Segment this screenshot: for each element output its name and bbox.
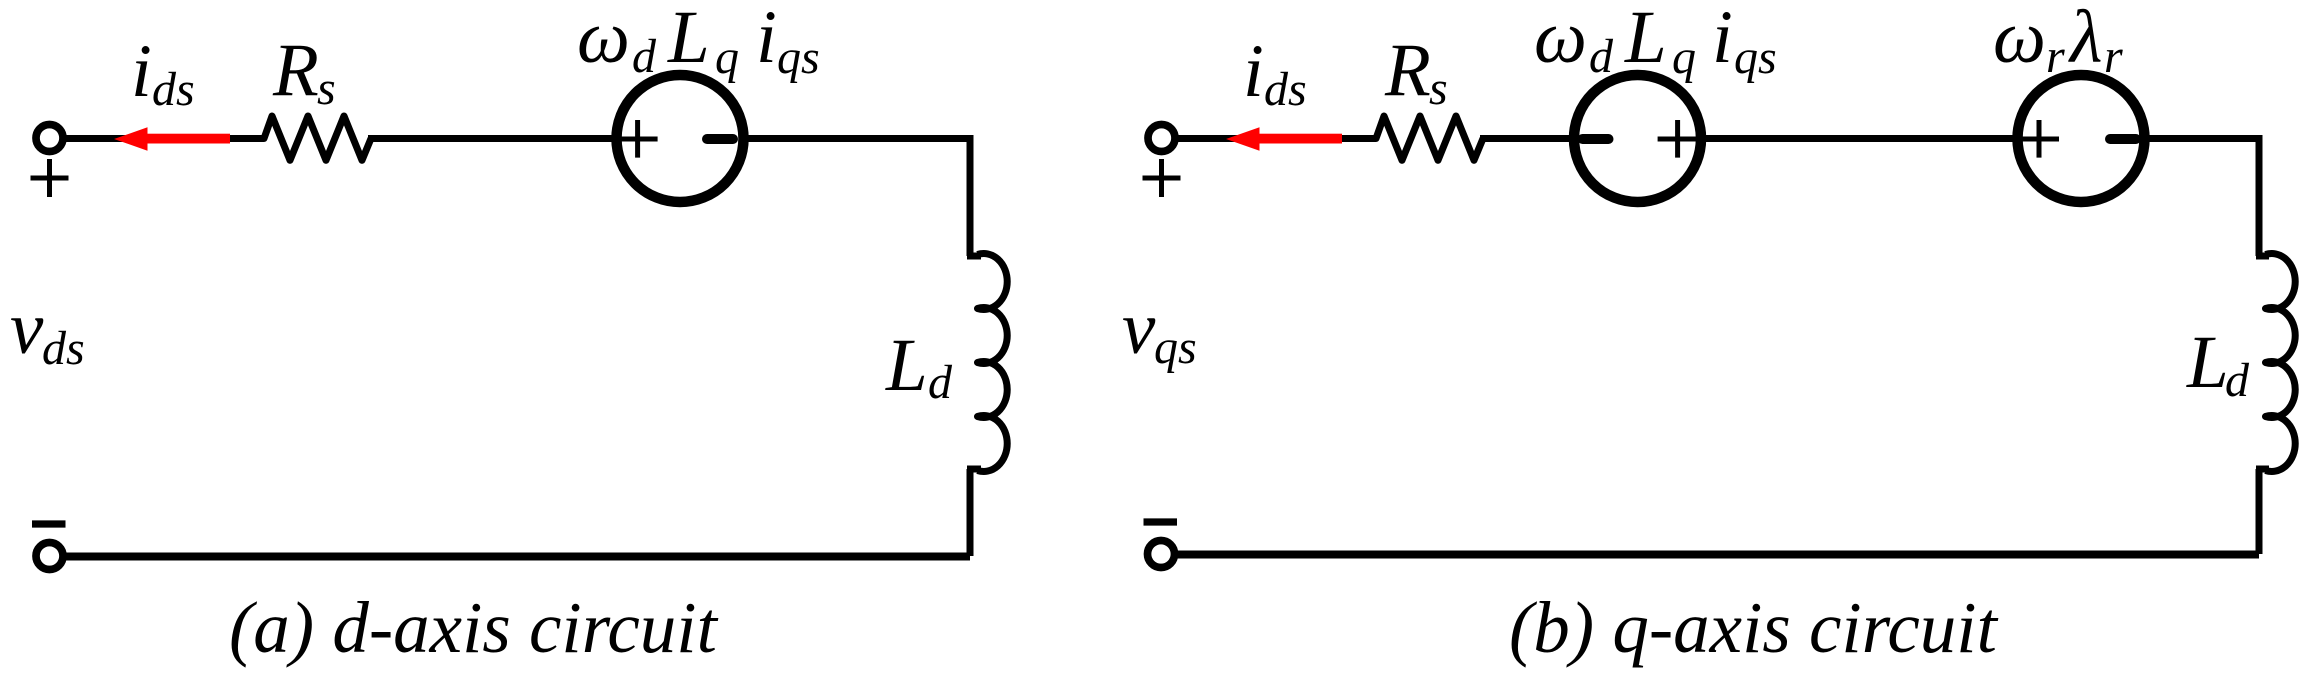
svg-text:i: i: [131, 30, 152, 113]
svg-text:d: d: [928, 356, 953, 409]
wire resistor-to-source1 (b): [1480, 135, 1576, 142]
svg-text:L: L: [1624, 0, 1667, 79]
label wd Lq iqs (b): [1534, 0, 1777, 84]
svg-text:r: r: [2104, 30, 2123, 83]
svg-text:i: i: [1243, 30, 1264, 113]
plus inside U1 (a): [618, 120, 658, 158]
svg-text:s: s: [1429, 62, 1448, 115]
svg-text:(a) d-axis circuit: (a) d-axis circuit: [229, 587, 719, 668]
label i_ds (b): [1243, 30, 1307, 116]
minus sign terminal (b): [1144, 518, 1178, 525]
svg-text:ds: ds: [42, 322, 85, 375]
wire elbow bottom (a): [967, 466, 981, 473]
terminal bottom-left (a): [36, 543, 63, 570]
svg-text:R: R: [272, 29, 319, 112]
minus sign terminal (a): [32, 520, 66, 527]
wire top-left segment (b): [1173, 135, 1376, 142]
current arrow i_ds (b): [1226, 127, 1342, 150]
svg-text:L: L: [667, 0, 710, 79]
wire bottom (a): [60, 553, 970, 561]
svg-text:i: i: [756, 0, 777, 79]
svg-text:d: d: [632, 30, 657, 83]
svg-text:v: v: [10, 287, 44, 370]
current arrow i_ds (a): [114, 127, 230, 150]
label v_qs (b): [1122, 287, 1197, 374]
wire elbow top (b): [2256, 253, 2269, 260]
wire resistor-to-source (a): [368, 135, 618, 142]
label i_ds (a): [131, 30, 195, 116]
inductor Ld (a): [978, 254, 1008, 472]
label v_ds (a): [10, 287, 85, 375]
wire right rail below inductor (b): [2256, 469, 2263, 554]
plus sign terminal (b): [1143, 159, 1181, 197]
svg-text:s: s: [317, 62, 336, 115]
wire source-to-corner and right rail top (a): [742, 139, 970, 257]
terminal bottom-left (b): [1148, 541, 1175, 568]
terminal top-left (a): [36, 125, 63, 152]
plus inside U3 (b): [2019, 120, 2059, 158]
svg-text:L: L: [2186, 321, 2229, 404]
plus sign terminal (a): [31, 159, 69, 197]
svg-text:q: q: [715, 31, 739, 84]
label wr lr (b): [1993, 0, 2123, 83]
svg-text:ω: ω: [1534, 0, 1587, 79]
wire elbow bottom (b): [2256, 466, 2269, 473]
svg-text:L: L: [885, 324, 928, 407]
minus inside U2 (b): [1583, 134, 1609, 144]
svg-text:qs: qs: [777, 31, 820, 84]
resistor Rs (a): [256, 116, 371, 160]
inductor Ld (b): [2266, 254, 2296, 472]
svg-text:qs: qs: [1154, 321, 1197, 374]
source U2 circle (b): [1574, 75, 1701, 202]
svg-text:d: d: [1589, 30, 1614, 83]
svg-text:q: q: [1672, 31, 1696, 84]
svg-text:qs: qs: [1734, 31, 1777, 84]
svg-text:R: R: [1384, 29, 1431, 112]
svg-text:v: v: [1122, 287, 1156, 370]
resistor Rs (b): [1368, 116, 1483, 160]
wire top-left segment (a): [60, 135, 264, 142]
svg-text:λ: λ: [2068, 0, 2102, 79]
plus inside U2 (b): [1658, 120, 1698, 158]
svg-text:ω: ω: [577, 0, 630, 79]
minus inside U3 (b): [2110, 134, 2136, 144]
svg-text:ds: ds: [1264, 63, 1307, 116]
wire right rail below inductor (a): [967, 469, 974, 556]
svg-text:i: i: [1712, 0, 1733, 79]
wire source2-to-corner and right rail top (b): [2146, 139, 2259, 257]
label Rs (a): [272, 29, 336, 115]
wire elbow top (a): [967, 253, 981, 260]
svg-text:d: d: [2225, 354, 2250, 407]
terminal top-left (b): [1148, 125, 1175, 152]
svg-text:(b) q-axis circuit: (b) q-axis circuit: [1509, 587, 1999, 668]
source U3 circle (b): [2018, 75, 2145, 202]
minus inside U1 (a): [707, 134, 733, 144]
wire bottom (b): [1173, 551, 2259, 559]
svg-text:ds: ds: [152, 63, 195, 116]
svg-text:ω: ω: [1993, 0, 2046, 79]
label Ld (a): [885, 324, 953, 409]
label Rs (b): [1384, 29, 1448, 115]
source U1 circle (a): [617, 75, 744, 202]
label wd Lq iqs (a): [577, 0, 820, 84]
wire source1-to-source2 (b): [1700, 135, 2016, 142]
svg-text:r: r: [2046, 30, 2065, 83]
label Ld (b): [2186, 321, 2250, 407]
